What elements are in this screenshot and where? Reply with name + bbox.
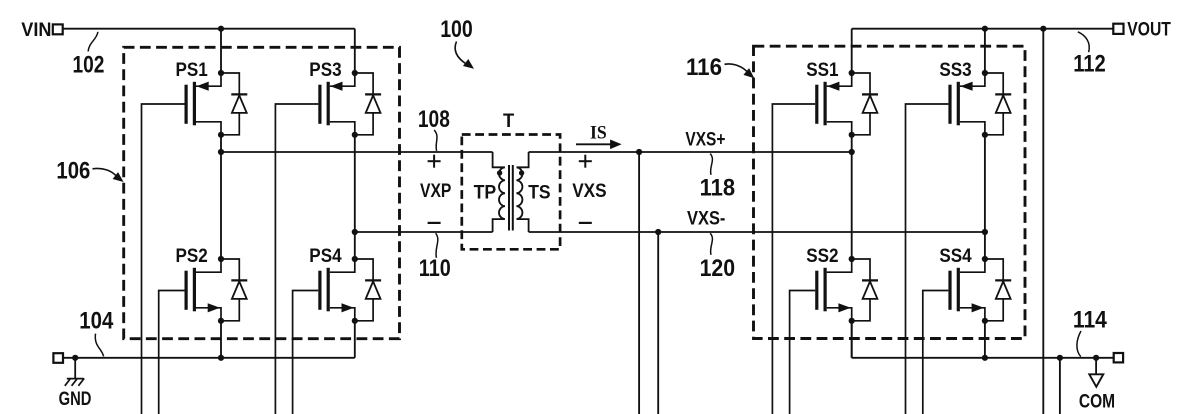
polarity + VXS [579, 155, 592, 168]
label TS [528, 183, 550, 204]
svg-text:100: 100 [440, 16, 473, 43]
svg-text:106: 106 [56, 158, 90, 185]
transistor SS1 [772, 60, 878, 414]
transistor PS2 [159, 246, 248, 414]
wire VXP+ rail [221, 151, 493, 153]
primary bridge dashed box 106 [124, 47, 400, 338]
label T [503, 111, 515, 132]
wire VXP- rail [355, 231, 493, 233]
ref 100 [440, 16, 476, 73]
label VXS- [687, 209, 725, 230]
wire VOUT top rail [852, 28, 1114, 30]
svg-text:COM: COM [1079, 391, 1115, 412]
wire VXS+ sense drop [638, 152, 640, 414]
svg-text:VXS-: VXS- [687, 209, 725, 230]
terminal GND-side [53, 353, 63, 363]
svg-text:PS2: PS2 [176, 246, 208, 267]
label VXP [420, 181, 452, 202]
ref 118 [700, 154, 736, 202]
polarity - VXS [579, 222, 592, 224]
wire PS4 source to bottom rail [354, 321, 356, 358]
svg-text:SS1: SS1 [806, 60, 839, 81]
transistor PS4 [293, 246, 382, 414]
svg-text:VOUT: VOUT [1127, 20, 1171, 41]
ref 108 [418, 106, 450, 151]
label VXS [572, 181, 606, 202]
ref 102 [73, 32, 105, 79]
svg-text:PS3: PS3 [309, 60, 341, 81]
svg-text:T: T [503, 111, 515, 132]
wire PS2 source down [220, 321, 222, 358]
ref 112 [1073, 32, 1106, 78]
node GND-PS2 junction [218, 355, 224, 361]
node VXS+ T junction [636, 149, 642, 155]
wire leg SS1-SS2 (node VXS+) [851, 135, 853, 259]
svg-text:SS2: SS2 [806, 246, 838, 267]
node GND stub junction [72, 355, 78, 361]
node VXS+ SS1 junction [849, 149, 855, 155]
svg-text:108: 108 [418, 106, 450, 133]
terminal COM-side [1114, 353, 1123, 362]
transistor SS3 [906, 60, 1012, 414]
node VOUT-SS3 junction [982, 26, 988, 32]
transistor PS3 [275, 60, 381, 414]
node VOUT sense junction [1040, 26, 1046, 32]
node VIN-PS1 junction [218, 26, 224, 32]
ref 106 [56, 158, 126, 186]
transformer primary winding TP [493, 152, 505, 232]
svg-text:PS4: PS4 [309, 246, 342, 267]
svg-text:110: 110 [419, 255, 451, 282]
transistor PS1 [142, 60, 248, 414]
transistor SS4 [923, 246, 1011, 414]
label IS [590, 122, 607, 143]
svg-text:SS3: SS3 [939, 60, 971, 81]
svg-text:TP: TP [474, 183, 497, 204]
transformer polarity dot secondary [519, 170, 524, 175]
wire SS3 drain up [984, 29, 986, 73]
node VXP+ junction [218, 149, 224, 155]
svg-text:112: 112 [1073, 51, 1106, 78]
wire VXS- rail [529, 231, 985, 233]
label VIN [21, 20, 51, 41]
transformer dashed box T [462, 135, 560, 250]
svg-text:116: 116 [686, 54, 722, 81]
current arrow IS [576, 140, 622, 150]
ref 110 [419, 233, 451, 282]
wire SS2 source to bottom rail [851, 321, 853, 358]
wire VXS- sense drop [657, 232, 659, 414]
node COM stub junction [1093, 355, 1099, 361]
wire VOUT sense drop [1042, 29, 1044, 414]
svg-text:114: 114 [1073, 306, 1107, 333]
label COM [1079, 391, 1115, 412]
wire COM bottom rail [852, 357, 1114, 359]
svg-text:PS1: PS1 [176, 60, 209, 81]
svg-text:VXS+: VXS+ [685, 129, 725, 150]
node VXP- junction [352, 229, 358, 235]
wire COM sense drop [1059, 358, 1061, 414]
transistor SS2 [790, 246, 878, 414]
node COM sense junction [1057, 355, 1063, 361]
svg-text:TS: TS [528, 183, 550, 204]
wire leg SS3-SS4 (node VXS-) [984, 135, 986, 259]
ground GND symbol [65, 358, 84, 386]
ref 116 [686, 54, 757, 82]
polarity + VXP [428, 155, 441, 168]
ref 104 [79, 307, 113, 356]
terminal VOUT [1113, 24, 1123, 34]
ground COM symbol [1089, 358, 1103, 387]
svg-text:GND: GND [59, 389, 92, 410]
wire top-left leg-B drop [354, 29, 356, 73]
ref 120 [700, 233, 736, 282]
svg-text:IS: IS [590, 122, 607, 143]
svg-text:102: 102 [73, 51, 105, 78]
terminal VIN [53, 24, 63, 34]
transformer polarity dot primary [497, 170, 502, 175]
node VXS- SS3 junction [982, 229, 988, 235]
wire VIN top rail [63, 28, 355, 30]
svg-text:VXP: VXP [420, 181, 452, 202]
wire PS1 drain up [220, 29, 222, 73]
node VXS- T junction [655, 229, 661, 235]
svg-text:SS4: SS4 [939, 246, 972, 267]
wire top-right leg drop SS1 [851, 29, 853, 73]
polarity - VXP [428, 222, 441, 224]
ref 114 [1073, 306, 1107, 356]
wire leg PS1-PS2 (node VXP+) [220, 135, 222, 259]
svg-text:VIN: VIN [21, 20, 51, 41]
label VOUT [1127, 20, 1171, 41]
wire SS2 source down2 [851, 321, 853, 358]
svg-text:VXS: VXS [572, 181, 606, 202]
label TP [474, 183, 497, 204]
secondary bridge dashed box 116 [754, 46, 1026, 338]
svg-text:118: 118 [700, 175, 736, 202]
wire VXS+ rail [529, 151, 852, 153]
transformer core [509, 165, 513, 231]
transformer secondary winding TS [517, 152, 529, 232]
wire leg PS3-PS4 (node VXP-) [354, 135, 356, 259]
label VXS+ [685, 129, 725, 150]
node SS4-COM junction [982, 355, 988, 361]
wire GND bottom rail [62, 357, 355, 359]
wire SS4 source down [984, 321, 986, 358]
svg-text:120: 120 [700, 255, 736, 282]
svg-text:104: 104 [79, 307, 113, 334]
label GND [59, 389, 92, 410]
